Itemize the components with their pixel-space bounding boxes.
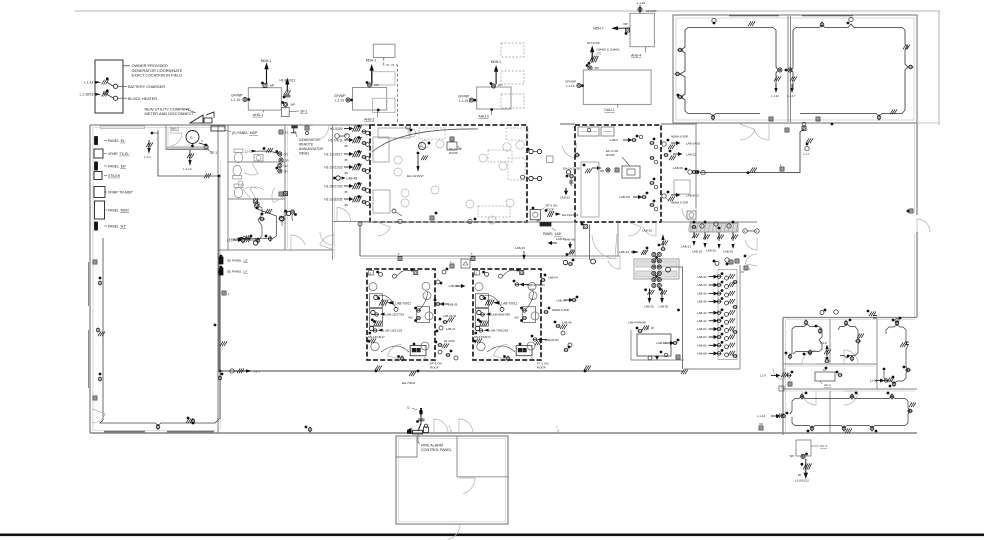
svg-text:WP: WP — [600, 169, 604, 173]
svg-text:GFI/WP: GFI/WP — [458, 94, 469, 98]
mp chairs mid — [394, 156, 439, 207]
left room homerun — [748, 21, 755, 26]
svg-text:LAB-7/9/11: LAB-7/9/11 — [501, 301, 517, 305]
svg-text:1: 1 — [450, 261, 452, 264]
wing dividing wall — [788, 16, 791, 122]
bath exit box EX upper — [279, 130, 288, 134]
bathroom mid wall — [228, 161, 285, 163]
svg-text:LAB-32: LAB-32 — [697, 275, 707, 279]
suite top-right devices — [883, 319, 911, 388]
lab B corner tag — [475, 271, 480, 276]
svg-text:LAB-12: LAB-12 — [686, 153, 696, 157]
svg-text:2: 2 — [476, 271, 478, 275]
svg-text:XFMR ‘TR-MDP’: XFMR ‘TR-MDP’ — [108, 190, 133, 194]
svg-text:REMOTE: REMOTE — [299, 143, 314, 147]
unit AHU-2 label — [364, 109, 379, 122]
lab column boundary west — [670, 267, 688, 374]
south room hatch 2 — [244, 235, 252, 241]
panel EH — [95, 162, 127, 170]
lab right door arcs — [745, 238, 757, 266]
south room recep bottom — [265, 235, 272, 242]
mid strip bottom devices — [438, 350, 458, 360]
unit AHU-4 label — [631, 47, 646, 58]
svg-text:#8: #8 — [345, 171, 348, 175]
AHU-4 MDH-7 arrow — [593, 22, 630, 35]
svg-text:LAB-29: LAB-29 — [644, 305, 654, 309]
LAB-50/58/60 circuit — [513, 280, 545, 292]
LAB-49 drop circuit — [563, 237, 575, 265]
bottom wall T mark 1 — [449, 425, 451, 433]
EF-2 junction box — [447, 137, 457, 150]
svg-text:GENERATOR: GENERATOR — [299, 138, 320, 142]
PANEL LAB label — [543, 228, 562, 236]
corridor wire down — [358, 222, 362, 256]
svg-text:LAB-36: LAB-36 — [697, 292, 707, 296]
svg-text:CU-1: CU-1 — [820, 444, 827, 448]
left room wire devices — [0, 0, 1, 1]
ceiling outlet x282 — [280, 217, 284, 226]
receptacle bank H1-5/3/9 — [330, 125, 370, 137]
svg-text:L.1-19: L.1-19 — [637, 1, 646, 5]
corridor north wall segment b — [661, 221, 757, 223]
addition door arc south — [445, 525, 460, 540]
svg-text:s: s — [756, 230, 758, 233]
(E) PANEL LZ — [219, 255, 248, 264]
svg-text:‘MDP’: ‘MDP’ — [249, 131, 258, 135]
LAB-4/6 circuit — [619, 192, 648, 199]
svg-text:WP: WP — [291, 102, 296, 106]
svg-text:WP: WP — [790, 454, 795, 458]
counter recep group 1 — [681, 221, 699, 249]
svg-text:LAB-60: LAB-60 — [656, 341, 666, 345]
svg-text:GFI: GFI — [284, 170, 288, 173]
lab A bottom device — [381, 346, 409, 362]
left wall window panes — [88, 262, 90, 388]
unit AHU-1 label — [253, 110, 264, 117]
svg-text:#8: #8 — [345, 144, 348, 148]
corridor right devices — [744, 255, 747, 258]
svg-text:LAB-14/16: LAB-14/16 — [686, 142, 701, 146]
unit AHU-4 box — [630, 13, 654, 46]
AHU-2 MDH-1 arrow — [366, 59, 377, 84]
svg-text:LAB-39: LAB-39 — [723, 250, 733, 254]
prep table stub wires — [644, 288, 667, 304]
CU-1 label — [811, 444, 827, 448]
counter recep group 4 — [723, 221, 738, 254]
lab B right bench devices — [520, 292, 533, 322]
svg-text:LAB-04: LAB-04 — [548, 276, 558, 280]
svg-text:‘MDH’: ‘MDH’ — [120, 208, 129, 212]
svg-text:L1-9: L1-9 — [760, 374, 766, 378]
fire alarm label — [418, 434, 452, 452]
svg-text:H1-31/33/35: H1-31/33/35 — [324, 197, 342, 201]
svg-text:s: s — [744, 230, 746, 233]
lab counter hatched band — [690, 223, 738, 232]
room wiring loop south — [233, 205, 262, 240]
lab B circuit LAB-79/81/83 — [474, 326, 508, 334]
svg-text:LAB-40: LAB-40 — [697, 311, 707, 315]
svg-text:#10: #10 — [530, 289, 535, 292]
LAB room devices — [636, 327, 680, 360]
svg-text:GFI/WP: GFI/WP — [334, 94, 345, 98]
svg-text:LAB-18: LAB-18 — [692, 250, 702, 254]
suite top-left room wiring — [789, 324, 822, 356]
svg-text:WP: WP — [374, 83, 379, 87]
svg-text:AC-1: AC-1 — [824, 383, 831, 387]
svg-text:BLOCK HEATER: BLOCK HEATER — [128, 97, 157, 101]
left room door devices — [778, 68, 792, 72]
bottom wall door arc 1 — [434, 419, 448, 433]
svg-text:LAB-38: LAB-38 — [697, 300, 707, 304]
right exterior wall lower — [915, 232, 918, 317]
receptacle LAB-32 — [697, 272, 735, 280]
recep right wall — [259, 213, 265, 221]
bathroom toilet 1 — [234, 149, 243, 163]
mp open square box — [547, 156, 554, 163]
left wall jbox — [93, 260, 97, 264]
suite corridor door arcs — [773, 350, 858, 405]
CU-1 feeder label — [795, 479, 809, 483]
svg-text:‘T6-EL’: ‘T6-EL’ — [119, 152, 130, 156]
svg-text:LAB-49: LAB-49 — [515, 246, 525, 250]
receptacle LAB-64 — [697, 333, 735, 341]
feeder junction at x220 — [219, 176, 222, 372]
AHU-3 WP cluster — [490, 82, 503, 88]
receptacle LAB-36 — [697, 289, 735, 297]
receptacle LAB-40 — [697, 308, 735, 316]
lab column bench rect — [718, 270, 737, 360]
CU-1 unit box — [796, 440, 811, 456]
corridor north wall segment a — [360, 221, 575, 223]
svg-text:H1-13/15/17: H1-13/15/17 — [324, 152, 342, 156]
receptacle bank H1-13/15/17 — [324, 150, 369, 162]
svg-text:PANEL: PANEL — [543, 232, 553, 236]
unit DAU-1 label — [604, 104, 617, 112]
gen circuit to SP-1 — [191, 139, 207, 147]
svg-text:#8: #8 — [345, 158, 348, 162]
homerun on feeder — [204, 173, 220, 178]
unit AHU-3 label — [479, 108, 494, 119]
left room wire loop — [100, 238, 220, 426]
SP-1 box near AHU-1 — [281, 108, 307, 117]
exit home symbol — [461, 259, 470, 268]
mp dashed chairs 1 — [408, 129, 444, 148]
svg-text:MDH-7: MDH-7 — [593, 27, 604, 31]
svg-text:H1-5/3/9: H1-5/3/9 — [330, 127, 343, 131]
left room recep 1 — [677, 48, 683, 52]
left room bottom devices — [156, 418, 194, 430]
dashed rooftop unit C3 — [501, 94, 524, 108]
left room wire devices 2 — [93, 277, 195, 424]
AHU-2 dashed conduit — [384, 58, 398, 122]
svg-text:LAB-24: LAB-24 — [619, 250, 630, 254]
svg-text:EX: EX — [285, 131, 289, 134]
corridor devices wall boxes — [398, 253, 475, 261]
prep table hatched — [634, 259, 679, 279]
svg-text:T: T — [449, 425, 451, 429]
lab24 walls — [575, 222, 618, 256]
svg-text:L.1-19: L.1-19 — [459, 99, 468, 103]
AHU-1 H1 arrow — [280, 78, 296, 99]
LAB-2 circuit — [610, 135, 643, 142]
svg-text:2: 2 — [370, 271, 372, 275]
block heater label — [118, 97, 158, 101]
lab column top devices — [725, 258, 739, 266]
top-right wing inner face — [676, 18, 914, 120]
utility note text — [145, 106, 195, 116]
receptacle bank H1-7/9/11 — [328, 136, 369, 148]
L.1-8 arrow — [820, 341, 831, 363]
EF-3 corner unit — [530, 207, 540, 223]
generator note text — [132, 63, 183, 77]
meter disconnect symbols — [190, 112, 214, 123]
transformer XT5-EH — [94, 172, 121, 180]
generator callout leader — [123, 65, 130, 67]
mp dashed chairs 2 — [503, 141, 524, 151]
svg-text:FIRE ALARM: FIRE ALARM — [421, 443, 443, 447]
lab A EF unit — [410, 343, 426, 356]
svg-text:ROOF: ROOF — [449, 151, 458, 155]
svg-text:LAB-52: LAB-52 — [560, 196, 570, 200]
addition horiz wall — [457, 476, 508, 478]
feeder note EH-2/4/6 — [587, 41, 620, 55]
top wall mid segment — [228, 124, 330, 126]
(E) PANEL MDP rect — [211, 126, 225, 131]
svg-text:L1-5: L1-5 — [227, 239, 233, 243]
suite bottom room wiring — [790, 396, 910, 428]
unit AHU-2 aux box lower — [373, 98, 396, 112]
left room right wire devices — [214, 269, 224, 380]
LAB-52 circuit — [560, 170, 574, 200]
svg-text:H1-25/27/29: H1-25/27/29 — [324, 184, 342, 188]
prep table recep pairs — [652, 252, 671, 287]
suite outer wall — [783, 318, 917, 436]
fire alarm bell device — [419, 408, 423, 415]
EF-2 label — [449, 146, 462, 155]
AHU-1 WP recep top — [261, 82, 274, 88]
right room recep bottom — [877, 115, 881, 121]
LAB-60 circuit — [656, 339, 679, 345]
svg-text:LAB-49: LAB-49 — [565, 237, 575, 241]
svg-text:CONTROL PANEL: CONTROL PANEL — [421, 448, 452, 452]
corridor mid recep — [581, 223, 596, 264]
svg-text:LAB-67/69/71: LAB-67/69/71 — [472, 335, 491, 339]
addition outer walls — [396, 436, 508, 524]
gen feeder L.1-14 — [183, 150, 194, 171]
lab B circuit LAB-85/87/89 — [477, 310, 520, 323]
bottom wall door arc 2 — [459, 419, 473, 433]
AHU-1 WP recep side — [281, 101, 295, 107]
LAB-24 circuit — [619, 247, 649, 255]
fire alarm riser — [416, 414, 424, 431]
generator label Gen-1 — [170, 127, 179, 131]
EF-1 on roof label — [424, 357, 442, 370]
L1-5 feeder arrow — [230, 237, 247, 241]
svg-text:LAB-50/58/60: LAB-50/58/60 — [527, 283, 545, 287]
L1-9 arrow — [760, 371, 793, 378]
suite corridor wall north — [783, 364, 877, 366]
PANEL LAB rect — [540, 223, 551, 227]
wing window sill 2 — [802, 15, 853, 17]
dashed rooftop unit C1 — [501, 43, 524, 57]
generator enclosure — [95, 60, 123, 113]
EH-19/21/23 circuit — [545, 209, 579, 217]
annunciator wall jbox — [284, 192, 288, 196]
fire alarm horn — [407, 428, 412, 434]
suite corridor wall south — [783, 389, 917, 391]
svg-text:AHU-2: AHU-2 — [364, 117, 374, 121]
LAB-01/03 circuit — [531, 335, 559, 346]
lab B EF unit — [516, 343, 532, 356]
receptacle LAB-68 — [697, 349, 735, 357]
bathroom lavatory 1 — [254, 155, 263, 162]
svg-text:XFMR: XFMR — [108, 152, 118, 156]
svg-text:LAB-2: LAB-2 — [610, 138, 619, 142]
svg-text:AHU-3: AHU-3 — [479, 115, 489, 119]
bottom wall window 1 — [104, 431, 145, 433]
EH-2/4/6 riser arrow — [588, 46, 599, 65]
lab A circuit LAB-13/15/17 — [366, 335, 385, 343]
right room homerun bottom — [890, 109, 897, 114]
NEMA 6-20R label top — [666, 135, 688, 142]
svg-text:T: T — [556, 425, 558, 429]
svg-text:LAB-68: LAB-68 — [697, 352, 707, 356]
svg-text:ROOF: ROOF — [537, 366, 546, 370]
svg-text:LAB-7/9/11: LAB-7/9/11 — [395, 301, 411, 305]
lab-50 bench — [674, 180, 690, 194]
fire alarm CL label — [407, 406, 417, 411]
unit AHU-2 box — [353, 88, 387, 111]
bathroom low wall — [228, 198, 285, 200]
south room hanging circle — [253, 238, 257, 245]
svg-text:PANEL: PANEL — [108, 164, 119, 168]
annunciator wall — [333, 125, 335, 260]
south room WP circle — [279, 210, 291, 221]
L1-5 feeder arrow — [227, 237, 251, 242]
open area top boxes — [785, 122, 806, 132]
AHU-3 MDH-1 arrow — [491, 60, 502, 84]
lab column boundary south — [684, 368, 740, 370]
right wall door opening — [917, 219, 930, 232]
wash symbol box — [687, 211, 696, 219]
bath GFI recep 3 — [275, 163, 288, 169]
svg-text:LAB-59: LAB-59 — [448, 303, 458, 307]
AC-1 FA tag — [823, 367, 827, 372]
bathroom toilet 2 — [233, 165, 242, 179]
lab B door arc — [494, 344, 510, 360]
mid bottom devices — [660, 351, 668, 357]
svg-text:H1-19/21/23: H1-19/21/23 — [324, 165, 342, 169]
mp dashed table 4 — [466, 199, 514, 224]
svg-text:XT5-EH: XT5-EH — [108, 174, 121, 178]
svg-text:LAB-22: LAB-22 — [681, 245, 691, 249]
mp room counters west — [373, 137, 390, 213]
svg-text:GFI: GFI — [284, 153, 288, 156]
right exterior wall upper — [915, 123, 918, 215]
lab A hatch mid — [374, 321, 383, 327]
svg-text:LAB-34: LAB-34 — [697, 283, 707, 287]
bath L1-3 circuit — [245, 147, 279, 154]
suite top-left devices — [785, 320, 822, 360]
recep south room 2 — [256, 238, 260, 244]
utility note leader — [186, 109, 196, 113]
svg-text:‘EL’: ‘EL’ — [120, 139, 126, 143]
lab B top devices — [482, 269, 524, 279]
open area wall x696 — [695, 125, 697, 208]
L1-11 arrow — [870, 376, 895, 383]
bath GFI recep 4 — [278, 169, 288, 173]
svg-text:#8: #8 — [651, 327, 654, 330]
svg-text:METER AND DISCONNECT: METER AND DISCONNECT — [145, 111, 195, 116]
svg-text:LAB-50: LAB-50 — [673, 166, 683, 170]
top wall right lab segment — [661, 123, 697, 125]
mp bottom devices — [398, 212, 477, 224]
top wall right of wing — [917, 122, 939, 124]
svg-text:LAB-41: LAB-41 — [446, 327, 456, 331]
svg-text:LAB-45: LAB-45 — [347, 176, 358, 180]
left room L.1-16 homerun — [771, 76, 781, 98]
svg-text:L.1-10: L.1-10 — [231, 98, 240, 102]
svg-text:PANEL: PANEL — [108, 208, 119, 212]
mid strip LAB-41 — [436, 326, 456, 332]
svg-text:L.1-14: L.1-14 — [84, 81, 94, 85]
(E) PANEL MDP label — [225, 130, 258, 135]
svg-text:PANEL: PANEL — [299, 152, 310, 156]
title block bottom bar — [0, 534, 984, 537]
lab B bottom device — [487, 346, 515, 362]
unit DAU-1 box — [583, 70, 651, 104]
svg-text:AHU-1: AHU-1 — [253, 113, 263, 117]
open area door arc — [682, 208, 696, 222]
svg-text:ANNUNCIATOR: ANNUNCIATOR — [298, 147, 323, 151]
svg-text:2: 2 — [201, 139, 203, 143]
suite top-mid room wiring — [838, 324, 860, 358]
open area LAB-50 tap — [691, 170, 705, 175]
mp bottom left recep — [392, 209, 402, 216]
svg-text:Gen-1: Gen-1 — [170, 127, 179, 131]
transformer T6-EL — [94, 149, 130, 158]
svg-text:NEMA 6-20R: NEMA 6-20R — [671, 135, 688, 139]
west corridor wall — [218, 125, 221, 433]
LAB-44/46/48 label — [628, 321, 654, 331]
AHU-1 circuit MDH-1 arrow — [261, 59, 272, 84]
(E) PANEL LY — [219, 266, 248, 275]
L1-7 tap — [230, 368, 261, 373]
svg-text:MDH-1: MDH-1 — [491, 60, 502, 64]
unit AHU-3 box — [477, 87, 511, 109]
svg-text:‘EH’: ‘EH’ — [120, 164, 126, 168]
svg-text:PANEL: PANEL — [108, 224, 119, 228]
svg-text:4: 4 — [228, 293, 230, 296]
H1 bank circles pair — [335, 134, 350, 139]
feeder wire main run — [220, 370, 684, 372]
bottom exterior wall — [90, 431, 917, 434]
generator room door arc — [169, 133, 182, 146]
top wall window band — [101, 126, 145, 129]
corridor door arcs — [272, 188, 390, 250]
gen feeder left wire — [158, 130, 219, 176]
receptacle LAB-34 — [697, 281, 735, 289]
ceiling outlet right wall — [907, 209, 913, 213]
svg-text:LAB-19/21/25: LAB-19/21/25 — [383, 329, 402, 333]
room wall y250 west — [218, 249, 333, 251]
wing bottom boxes — [769, 117, 820, 121]
svg-text:LAB-62: LAB-62 — [697, 327, 707, 331]
svg-text:MDH-1: MDH-1 — [366, 59, 377, 63]
receptacle bank H1-19/21/23 — [324, 163, 369, 175]
sheet right border line — [938, 11, 940, 125]
lab A circuit LAB-25/27/29 — [371, 310, 414, 323]
